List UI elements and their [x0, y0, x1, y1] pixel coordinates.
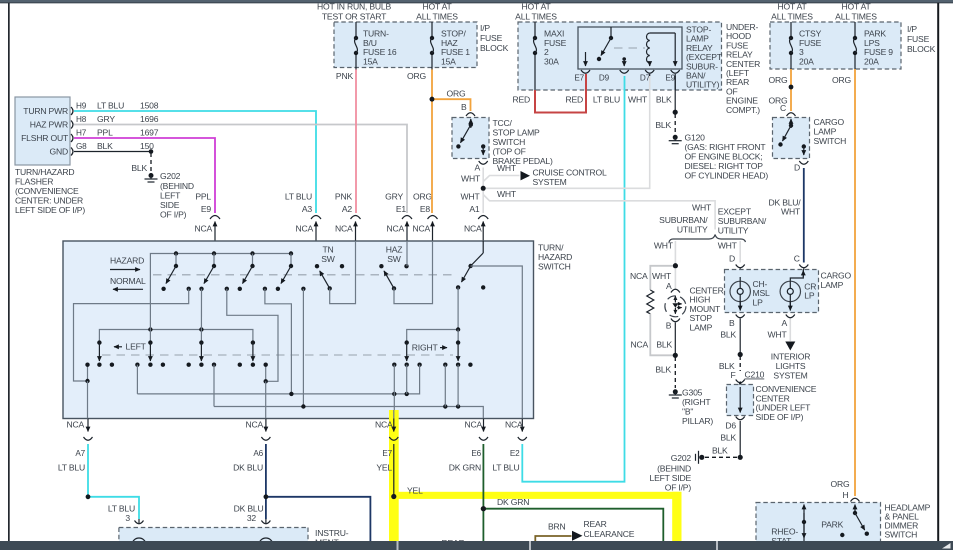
- pin E2: [521, 419, 523, 432]
- svg-text:UTILITY: UTILITY: [677, 225, 708, 235]
- svg-text:NCA: NCA: [295, 224, 313, 234]
- wire HAZ SW U to E8: [394, 241, 433, 304]
- wire YEL core E7: [393, 444, 395, 497]
- horizontal y406 to E6: [214, 407, 483, 419]
- svg-text:NCA: NCA: [245, 420, 263, 430]
- svg-text:BLK: BLK: [656, 95, 672, 105]
- node ORG splice to TCC B: [430, 97, 435, 102]
- left page border: [8, 3, 10, 542]
- rheostat: [803, 505, 805, 542]
- node DK BLU splice A6: [264, 494, 269, 499]
- svg-text:A: A: [474, 163, 480, 173]
- svg-text:WHT: WHT: [652, 271, 672, 281]
- mech dashed line upper: [153, 274, 456, 276]
- wire ORG branch to TCC B: [432, 99, 471, 111]
- svg-text:BLK: BLK: [97, 141, 113, 151]
- svg-text:ORG: ORG: [413, 192, 432, 202]
- svg-text:YEL: YEL: [407, 486, 423, 496]
- svg-text:LT BLU: LT BLU: [593, 95, 620, 105]
- maxi fuse 2 wire: [534, 22, 536, 37]
- svg-text:GND: GND: [50, 147, 69, 157]
- lamp CH-MSL LP: [739, 277, 741, 282]
- svg-text:A: A: [666, 281, 672, 291]
- wire WHT right tail: [739, 241, 741, 263]
- LEFT contact dots row: [85, 363, 89, 367]
- wire resistor to node: [650, 314, 675, 356]
- wire ORG from fuse1: [431, 70, 433, 214]
- svg-text:B: B: [666, 321, 672, 331]
- svg-text:PILLAR): PILLAR): [682, 416, 713, 426]
- svg-text:LAMP: LAMP: [814, 127, 837, 137]
- park lps fuse element: [854, 38, 857, 53]
- svg-text:TEST OR START: TEST OR START: [322, 12, 387, 22]
- svg-text:20A: 20A: [864, 56, 879, 66]
- wire WHT cruise branch: [483, 176, 519, 182]
- svg-text:A6: A6: [253, 449, 263, 458]
- svg-text:TURN PWR: TURN PWR: [23, 106, 68, 116]
- svg-text:HOT IN RUN, BULB: HOT IN RUN, BULB: [317, 2, 391, 12]
- hazard arrow: [110, 269, 140, 271]
- node YEL splice E7: [391, 494, 396, 499]
- svg-text:PARK: PARK: [821, 520, 843, 530]
- svg-text:E6: E6: [471, 449, 481, 458]
- wire E1 entry: [406, 241, 408, 266]
- svg-text:FUSE: FUSE: [480, 33, 503, 43]
- instrument cluster connectors: [138, 519, 140, 523]
- svg-text:15A: 15A: [363, 56, 378, 66]
- svg-text:20A: 20A: [799, 56, 814, 66]
- wire E2 branch gray: [471, 266, 523, 419]
- svg-text:CARGO: CARGO: [814, 117, 845, 127]
- svg-text:YEL: YEL: [376, 463, 392, 473]
- svg-text:B: B: [729, 318, 735, 328]
- riser contact214 down: [213, 365, 215, 407]
- wire DK BLU/WHT: [803, 168, 805, 263]
- svg-text:LEFT SIDE: LEFT SIDE: [649, 473, 691, 483]
- relay contact stub: [610, 27, 612, 37]
- RIGHT bus: [407, 330, 458, 343]
- svg-text:LT BLU: LT BLU: [97, 101, 124, 111]
- wire routing: contact 303.4 straight down: [302, 289, 304, 407]
- svg-text:SWITCH: SWITCH: [814, 136, 847, 146]
- ground G202 right (sideways): [698, 451, 700, 464]
- fuse 16 TURN-B/U wire: [355, 22, 357, 37]
- upper bus: [150, 254, 291, 304]
- svg-text:LIGHTS: LIGHTS: [776, 361, 806, 371]
- svg-text:32: 32: [247, 513, 257, 523]
- pole3 stub+blade: [252, 254, 254, 267]
- pole4 stub+blade: [290, 254, 292, 267]
- svg-text:D: D: [794, 163, 800, 173]
- svg-text:HOT AT: HOT AT: [841, 2, 871, 12]
- svg-text:BLK: BLK: [656, 340, 672, 350]
- svg-text:ALL TIMES: ALL TIMES: [416, 12, 458, 22]
- svg-text:WHT: WHT: [497, 163, 517, 173]
- svg-text:SYSTEM: SYSTEM: [773, 371, 807, 381]
- svg-text:NCA: NCA: [505, 420, 523, 430]
- svg-text:ORG: ORG: [447, 89, 466, 99]
- svg-text:(BEHIND: (BEHIND: [160, 181, 194, 191]
- convenience center box: [727, 385, 754, 416]
- riser contact406 down: [406, 365, 408, 394]
- mech dashed line lower: [102, 354, 453, 356]
- ground G120: [673, 135, 678, 140]
- svg-text:HAZ PWR: HAZ PWR: [30, 120, 68, 130]
- svg-text:NCA: NCA: [66, 420, 84, 430]
- upper contact dots: [161, 287, 165, 291]
- svg-text:BLK: BLK: [655, 365, 671, 375]
- svg-text:NCA: NCA: [464, 420, 482, 430]
- wire NCA resistor branch: [650, 266, 675, 290]
- wire WHT to lamp A: [674, 266, 676, 290]
- svg-text:EXCEPT: EXCEPT: [718, 207, 752, 217]
- ground G305: [673, 389, 678, 394]
- svg-text:H8: H8: [76, 115, 87, 124]
- svg-text:LP: LP: [753, 297, 764, 307]
- svg-text:SWITCH: SWITCH: [885, 530, 918, 540]
- wire routing: contact 264.9 to y394 riser: [265, 289, 292, 394]
- svg-text:SIDE OF I/P): SIDE OF I/P): [756, 412, 804, 422]
- svg-text:1697: 1697: [140, 128, 159, 138]
- pin G8: [71, 148, 73, 156]
- wire YEL highlight right vertical: [672, 492, 681, 541]
- svg-text:A3: A3: [302, 204, 313, 214]
- top chrome bar: [0, 0, 953, 2]
- ground G202: [149, 173, 154, 178]
- lamp connector A: [671, 289, 680, 292]
- svg-text:WHT: WHT: [461, 192, 481, 202]
- svg-text:G202: G202: [671, 453, 692, 463]
- wire YEL highlight vertical E7: [389, 410, 399, 541]
- svg-text:I/P: I/P: [907, 24, 917, 34]
- svg-text:SW: SW: [321, 254, 336, 264]
- svg-text:FLASHER: FLASHER: [15, 177, 53, 187]
- svg-text:NCA: NCA: [630, 271, 648, 281]
- svg-text:LP: LP: [804, 291, 815, 301]
- wire WHT from relay D7: [483, 76, 650, 188]
- svg-text:G305: G305: [682, 388, 703, 398]
- pole2 stub+blade: [213, 254, 215, 267]
- brace split: [669, 235, 746, 243]
- svg-text:LEFT: LEFT: [160, 191, 181, 201]
- svg-text:A7: A7: [75, 449, 85, 458]
- svg-text:A1: A1: [469, 204, 480, 214]
- wire WHT left tail: [674, 241, 676, 266]
- svg-text:A: A: [781, 318, 787, 328]
- fuse 1 STOP/HAZ wire: [431, 22, 433, 37]
- wire BLK dashed to G305: [674, 357, 676, 388]
- LEFT poles blades: [97, 340, 101, 344]
- svg-text:INSTRU-: INSTRU-: [315, 528, 349, 538]
- riser contact445 down: [444, 365, 446, 407]
- node BLK splice at E9: [673, 110, 678, 115]
- fuse 16 element: [355, 38, 358, 53]
- svg-text:(GAS: RIGHT FRONT: (GAS: RIGHT FRONT: [685, 142, 767, 152]
- RIGHT poles blades: [405, 340, 409, 344]
- node BLK splice D6: [738, 455, 743, 460]
- svg-text:D6: D6: [725, 421, 736, 431]
- svg-text:ORG: ORG: [831, 479, 850, 489]
- wire PPL 1697: [74, 138, 215, 213]
- node BLK splice at flasher GND: [149, 149, 154, 154]
- svg-text:F: F: [730, 370, 735, 380]
- svg-text:WHT: WHT: [628, 95, 648, 105]
- svg-text:PPL: PPL: [97, 128, 113, 138]
- svg-text:SYSTEM: SYSTEM: [533, 177, 567, 187]
- svg-text:E7: E7: [574, 74, 584, 83]
- wire DK BLU from A6: [265, 444, 267, 519]
- svg-text:NCA: NCA: [335, 224, 353, 234]
- arrow rear clearance: [572, 531, 583, 541]
- relay D9 stub: [622, 57, 626, 61]
- riser contact137 down: [136, 365, 138, 394]
- relay pin connectors: [581, 70, 590, 73]
- svg-text:I/P: I/P: [480, 23, 490, 33]
- svg-text:E7: E7: [382, 449, 392, 458]
- lamp circles (clipped by bar): [132, 538, 146, 550]
- svg-text:NCA: NCA: [375, 420, 393, 430]
- svg-text:H9: H9: [76, 102, 87, 111]
- svg-text:BLOCK: BLOCK: [480, 43, 509, 53]
- svg-text:BLK: BLK: [655, 120, 671, 130]
- svg-text:PNK: PNK: [336, 71, 354, 81]
- wire WHT lower branch to brace: [483, 195, 715, 230]
- svg-text:SUBURBAN/: SUBURBAN/: [718, 216, 767, 226]
- riser contact394 down to y394 and E7 exit: [393, 365, 395, 419]
- wire BLK dashed: [150, 153, 152, 172]
- big right pole: A1 lead-in diagonal: [482, 241, 484, 253]
- svg-text:FUSE: FUSE: [907, 34, 930, 44]
- wire BLK from E9: [674, 76, 676, 112]
- svg-text:1696: 1696: [140, 114, 159, 124]
- svg-text:WHT: WHT: [461, 174, 481, 184]
- riser contact458 down: [457, 365, 459, 407]
- svg-text:OF I/P): OF I/P): [665, 483, 692, 493]
- svg-text:PNK: PNK: [335, 192, 353, 202]
- wire BLK D6 down: [739, 421, 741, 457]
- svg-text:BLOCK: BLOCK: [907, 44, 936, 54]
- svg-text:SWITCH: SWITCH: [493, 137, 526, 147]
- svg-text:SW: SW: [387, 254, 402, 264]
- wire BLK 150: [74, 151, 151, 153]
- svg-text:E9: E9: [201, 204, 212, 214]
- node WHT splice CHMSL: [673, 263, 678, 268]
- svg-text:DK BLU: DK BLU: [234, 504, 264, 514]
- svg-text:HOT AT: HOT AT: [422, 2, 452, 12]
- svg-text:(CONVENIENCE: (CONVENIENCE: [15, 186, 79, 196]
- svg-text:ALL TIMES: ALL TIMES: [771, 12, 813, 22]
- wire DK GRN from E6: [482, 444, 484, 509]
- wire A6 exit: [265, 381, 267, 418]
- svg-text:(BEHIND: (BEHIND: [657, 464, 691, 474]
- svg-text:ALL TIMES: ALL TIMES: [835, 12, 877, 22]
- node BLK splice cargo lamp B: [738, 352, 743, 357]
- svg-text:HAZARD: HAZARD: [538, 252, 572, 262]
- node DK GRN splice E6: [481, 506, 486, 511]
- svg-text:BRN: BRN: [548, 522, 566, 532]
- svg-text:SWITCH: SWITCH: [538, 262, 571, 272]
- svg-text:ORG: ORG: [769, 75, 788, 85]
- pin H7: [71, 134, 73, 142]
- svg-text:E2: E2: [510, 449, 520, 458]
- pin A6: [265, 419, 267, 432]
- svg-text:NCA: NCA: [386, 224, 404, 234]
- svg-text:ALL TIMES: ALL TIMES: [515, 12, 557, 22]
- svg-text:ORG: ORG: [407, 71, 426, 81]
- svg-text:(RIGHT: (RIGHT: [682, 397, 711, 407]
- svg-text:15A: 15A: [441, 56, 456, 66]
- svg-text:REAR: REAR: [584, 519, 607, 529]
- svg-text:RHEO-: RHEO-: [771, 527, 798, 537]
- pin H9: [71, 107, 73, 115]
- svg-text:TCC/: TCC/: [493, 118, 513, 128]
- svg-text:D: D: [729, 254, 735, 264]
- maxi fuse element: [534, 38, 537, 53]
- svg-text:G120: G120: [685, 133, 706, 143]
- svg-text:LT BLU: LT BLU: [285, 192, 312, 202]
- RIGHT contact dots: [392, 363, 396, 367]
- svg-text:HOT AT: HOT AT: [521, 2, 551, 12]
- ctsy fuse element: [790, 38, 793, 53]
- svg-text:DIESEL: RIGHT TOP: DIESEL: RIGHT TOP: [685, 161, 764, 171]
- svg-text:BLK: BLK: [720, 330, 736, 340]
- park lps fuse 9 wire: [854, 22, 856, 37]
- LEFT bus: [99, 330, 253, 343]
- svg-text:DK GRN: DK GRN: [449, 463, 481, 473]
- svg-text:CENTER: UNDER: CENTER: UNDER: [15, 196, 83, 206]
- svg-text:NCA: NCA: [464, 224, 482, 234]
- svg-text:D9: D9: [599, 74, 610, 83]
- svg-text:G202: G202: [160, 171, 181, 181]
- svg-text:C210: C210: [745, 370, 765, 380]
- svg-text:H7: H7: [76, 129, 87, 138]
- ctsy fuse 3 wire: [790, 22, 792, 37]
- wire LT BLU from A7: [88, 444, 139, 519]
- svg-text:UTILITY: UTILITY: [718, 226, 749, 236]
- svg-text:C: C: [780, 103, 786, 113]
- svg-text:G8: G8: [76, 142, 87, 151]
- svg-text:INTERIOR: INTERIOR: [771, 352, 810, 362]
- svg-text:TURN/HAZARD: TURN/HAZARD: [15, 167, 74, 177]
- right page border: [937, 3, 939, 542]
- svg-text:1508: 1508: [140, 101, 159, 111]
- svg-text:CLEARANCE: CLEARANCE: [584, 529, 635, 539]
- svg-text:GRY: GRY: [385, 192, 403, 202]
- wire A7 exit: [87, 381, 89, 419]
- svg-text:(TOP OF: (TOP OF: [493, 147, 526, 157]
- E7 wire over highlight: [393, 410, 395, 419]
- svg-text:CARGO: CARGO: [821, 271, 852, 281]
- svg-text:B: B: [461, 102, 467, 112]
- svg-text:SUBURBAN/: SUBURBAN/: [659, 215, 708, 225]
- arrow cruise control: [521, 171, 531, 180]
- wire BLK lamp B to node: [674, 323, 676, 356]
- svg-text:OF ENGINE BLOCK;: OF ENGINE BLOCK;: [685, 152, 763, 162]
- wire LT BLU 1508: [74, 111, 316, 213]
- svg-text:30A: 30A: [544, 56, 559, 66]
- node BLK splice CHMSL B: [673, 353, 678, 358]
- svg-text:PPL: PPL: [195, 192, 211, 202]
- pin E7: [393, 419, 395, 432]
- svg-text:OF CYLINDER HEAD): OF CYLINDER HEAD): [685, 171, 769, 181]
- svg-text:COMPT.): COMPT.): [726, 105, 760, 115]
- svg-text:BLK: BLK: [131, 163, 147, 173]
- svg-text:CRUISE CONTROL: CRUISE CONTROL: [533, 168, 607, 178]
- relay coil: [647, 33, 650, 63]
- svg-text:"B": "B": [682, 407, 693, 417]
- svg-text:LEFT: LEFT: [126, 342, 147, 352]
- relay E7 stub: [585, 52, 587, 66]
- node LT BLU splice A7: [86, 494, 91, 499]
- svg-text:HAZARD: HAZARD: [110, 256, 144, 266]
- svg-text:C: C: [794, 254, 800, 264]
- relay link dashed: [614, 47, 645, 49]
- wire LT BLU loop E2 to relay D9: [522, 76, 624, 482]
- svg-text:H: H: [842, 490, 848, 500]
- wire from big pole contact down to RIGHT bus: [457, 287, 459, 342]
- ground G202 terminal dot: [699, 455, 704, 460]
- svg-text:LT BLU: LT BLU: [108, 504, 135, 514]
- svg-text:RED: RED: [512, 95, 530, 105]
- resistor: [647, 290, 654, 314]
- fuse 1 element: [431, 38, 434, 53]
- svg-text:BLK: BLK: [712, 446, 728, 456]
- wire RED maxi fuse to E7: [535, 74, 586, 113]
- wire GRY 1696: [74, 125, 407, 214]
- svg-text:E1: E1: [396, 204, 407, 214]
- svg-text:NCA: NCA: [630, 340, 648, 350]
- svg-text:LT BLU: LT BLU: [492, 463, 519, 473]
- svg-text:LEFT SIDE OF I/P): LEFT SIDE OF I/P): [15, 205, 85, 215]
- svg-text:UTILITY): UTILITY): [686, 80, 720, 90]
- svg-text:3: 3: [125, 513, 130, 523]
- svg-text:LAMP: LAMP: [690, 322, 713, 332]
- svg-text:LT BLU: LT BLU: [58, 463, 85, 473]
- svg-text:A2: A2: [342, 204, 353, 214]
- node ORG splice (CTSY feed): [789, 85, 794, 90]
- TN SW pole: [315, 264, 319, 268]
- wire PNK from fuse16: [355, 70, 357, 214]
- svg-text:WHT: WHT: [718, 241, 738, 251]
- dashed BLK left to G202: [705, 456, 738, 458]
- pin H8: [71, 121, 73, 129]
- relay pin wires to box edge: [585, 74, 587, 90]
- svg-text:BLK: BLK: [720, 433, 736, 443]
- svg-text:DK GRN: DK GRN: [497, 497, 529, 507]
- wire routing: contact 188.7 to A7 loop: [74, 289, 189, 381]
- svg-text:RED: RED: [565, 95, 583, 105]
- svg-text:HAZ: HAZ: [386, 245, 403, 255]
- HAZ SW pole: [379, 264, 383, 268]
- svg-text:E9: E9: [665, 74, 675, 83]
- riser x150 upper-left edge: [149, 304, 151, 343]
- svg-text:SIDE: SIDE: [160, 200, 180, 210]
- svg-text:TURN/: TURN/: [538, 243, 564, 253]
- node junction: [481, 186, 486, 191]
- svg-text:OF I/P): OF I/P): [160, 210, 187, 220]
- svg-text:WHT: WHT: [497, 189, 517, 199]
- svg-text:WHT: WHT: [692, 203, 712, 213]
- svg-text:TN: TN: [322, 245, 333, 255]
- wire WHT from TCC A down to A1: [482, 168, 484, 214]
- lamp CHMSL circle: [665, 296, 686, 317]
- svg-text:WHT: WHT: [768, 330, 788, 340]
- instrument cluster dashed box: [119, 528, 308, 550]
- relay blade: [601, 38, 611, 56]
- wire routing: contact 226.8 loop to 265.7: [227, 289, 278, 382]
- wire BRN + rear clearance: [535, 536, 571, 541]
- lamp CR LP: [790, 269, 803, 281]
